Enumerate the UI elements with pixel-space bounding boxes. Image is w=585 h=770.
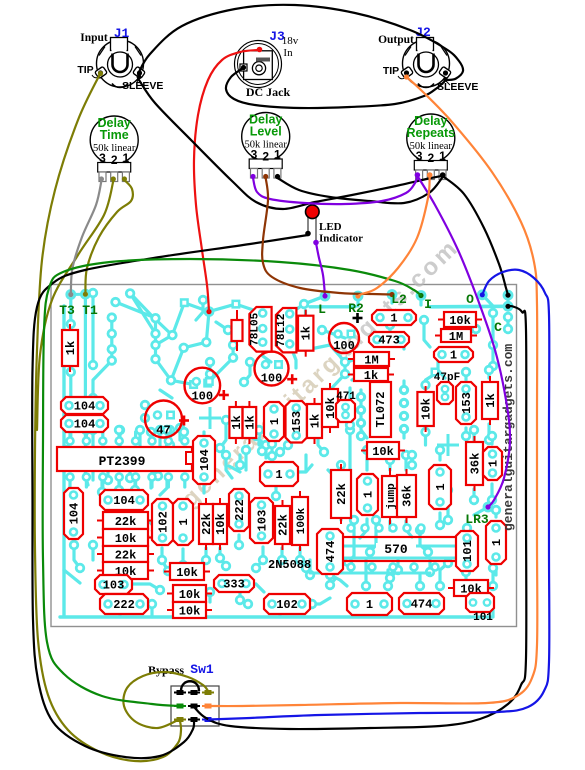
svg-text:3: 3	[99, 151, 106, 165]
svg-text:2: 2	[427, 151, 434, 165]
svg-text:3: 3	[251, 148, 258, 162]
watermark diagonal	[123, 236, 463, 565]
wire orange Repeats pin2 to pad R2	[358, 176, 430, 296]
diode D1	[232, 310, 243, 351]
svg-text:Repeats: Repeats	[406, 126, 455, 140]
wire olive switch loop	[123, 672, 208, 728]
wire black DC jack to J2 sleeve	[226, 68, 444, 108]
capacitor C34 (1)	[347, 593, 392, 615]
resistor R27 (36k)	[397, 469, 416, 523]
capacitor C3 (47 electrolytic)	[145, 401, 189, 438]
svg-text:DC Jack: DC Jack	[246, 85, 291, 99]
resistor R15 (22k)	[97, 512, 154, 529]
node C lower pad	[503, 301, 514, 312]
capacitor C5 (100 electrolytic)	[255, 352, 298, 386]
capacitor C18 (104)	[64, 488, 83, 539]
capacitor C19 (104)	[100, 490, 148, 510]
capacitor C14 (153)	[456, 382, 476, 424]
svg-text:222: 222	[233, 499, 247, 521]
switch Sw1 box	[171, 686, 219, 726]
resistor R9 (1k)	[307, 398, 323, 444]
regulator VR1 (78L05)	[249, 307, 271, 352]
resistor R29 (10k)	[448, 580, 494, 597]
svg-text:PT2399: PT2399	[99, 454, 146, 469]
svg-text:104: 104	[74, 400, 96, 414]
svg-text:10k: 10k	[214, 513, 228, 535]
resistor R28 (570)	[328, 537, 466, 561]
svg-text:In: In	[283, 47, 293, 59]
svg-text:1M: 1M	[364, 354, 378, 368]
svg-text:L2: L2	[391, 292, 407, 307]
svg-text:1: 1	[274, 148, 281, 162]
svg-text:1: 1	[366, 598, 373, 612]
capacitor C10 (1)	[264, 402, 284, 441]
wire black J1 sleeve to J2 sleeve	[138, 5, 463, 80]
svg-text:1k: 1k	[300, 326, 314, 340]
wire olive Time pin1 to T1	[85, 180, 132, 294]
resistor R14 (36k)	[466, 436, 483, 491]
svg-text:10k: 10k	[115, 532, 137, 546]
capacitor C9 (1)	[434, 347, 473, 363]
svg-text:1: 1	[177, 518, 191, 525]
svg-text:474: 474	[411, 598, 433, 612]
svg-text:222: 222	[113, 598, 135, 612]
svg-text:Time: Time	[100, 128, 129, 142]
jumper JP1	[382, 468, 398, 525]
capacitor C33 (474)	[399, 593, 444, 614]
node L pad	[320, 291, 331, 302]
capacitor C29 (1)	[429, 465, 451, 509]
resistor R19 (22k)	[199, 498, 214, 550]
capacitor C12 (471)	[336, 391, 356, 422]
svg-text:102: 102	[276, 598, 298, 612]
svg-text:1: 1	[434, 483, 448, 490]
svg-text:J1: J1	[114, 26, 130, 41]
svg-text:T1: T1	[82, 303, 98, 318]
square pads	[180, 298, 440, 389]
svg-text:10k: 10k	[372, 445, 394, 459]
resistor R26 (22k)	[331, 464, 351, 524]
svg-text:104: 104	[68, 503, 82, 525]
capacitor C8 (473)	[369, 332, 409, 348]
switch Sw1 jumper	[181, 681, 199, 691]
svg-text:TIP: TIP	[77, 64, 93, 76]
svg-text:1k: 1k	[364, 369, 378, 383]
capacitor C32 (1)	[486, 521, 506, 564]
alignment cross cyan 2	[437, 434, 459, 456]
capacitor C20 (102)	[152, 499, 173, 545]
capacitor C6 (100 electrolytic)	[329, 313, 363, 353]
jack J3 labels	[246, 29, 299, 99]
green node labels	[59, 292, 502, 527]
svg-text:101: 101	[473, 612, 493, 624]
resistor R24 (10k)	[167, 585, 212, 602]
capacitor C24 (103)	[95, 575, 132, 594]
svg-text:1: 1	[123, 151, 130, 165]
svg-text:102: 102	[157, 511, 171, 533]
resistor R18 (10k)	[97, 562, 154, 579]
wire black Repeats pin1 to pad C	[443, 176, 508, 295]
resistor R2 (1k)	[298, 310, 314, 357]
node LR3 pad	[483, 502, 494, 513]
svg-text:O: O	[466, 292, 474, 307]
svg-text:C: C	[494, 320, 502, 335]
svg-text:100: 100	[333, 339, 355, 353]
resistor R23 (10k)	[164, 563, 210, 580]
node L2 pad	[387, 289, 398, 300]
resistor R22 (100k)	[292, 491, 308, 551]
wire green switch to pad I	[43, 259, 421, 706]
capacitor C21 (1)	[173, 499, 193, 545]
svg-text:1k: 1k	[243, 415, 257, 429]
wire olive Time pin2 down	[37, 181, 113, 430]
jack J1 labels	[77, 26, 163, 92]
svg-text:22k: 22k	[277, 514, 291, 536]
capacitor C2 (104)	[61, 415, 108, 432]
transistor Q1 label 2N5088	[268, 558, 311, 572]
svg-text:104: 104	[74, 418, 96, 432]
node red wire end pad	[204, 306, 215, 317]
svg-text:78L05: 78L05	[249, 312, 261, 345]
svg-text:153: 153	[460, 392, 474, 414]
svg-text:1: 1	[268, 418, 282, 425]
wire red DC+ to PCB	[194, 50, 258, 312]
potentiometer VR-B (Delay Level)	[242, 113, 290, 179]
svg-text:Level: Level	[250, 125, 282, 139]
svg-text:100: 100	[261, 372, 283, 386]
svg-text:T3: T3	[59, 303, 75, 318]
capacitor C26 (333)	[214, 575, 254, 592]
potentiometer VR-C (Delay Repeats)	[406, 114, 455, 180]
svg-text:22k: 22k	[200, 513, 214, 535]
wire black LED to switch	[32, 235, 308, 758]
svg-text:10k: 10k	[176, 566, 198, 580]
svg-text:1k: 1k	[484, 393, 498, 407]
svg-text:1: 1	[362, 491, 376, 498]
capacitor C17 (1)	[260, 462, 298, 486]
wire gray Time pin3 to T3	[71, 181, 102, 294]
capacitor C15 (1)	[483, 447, 502, 480]
svg-text:103: 103	[256, 510, 270, 532]
svg-text:22k: 22k	[115, 549, 137, 563]
capacitor C23 (103)	[250, 498, 273, 543]
resistor R7 (1k)	[229, 401, 244, 444]
svg-text:104: 104	[198, 449, 212, 471]
svg-text:10k: 10k	[420, 398, 434, 420]
svg-text:474: 474	[324, 541, 338, 563]
PCB board outline	[51, 285, 517, 627]
IC U2 PT2399 pin pads	[65, 436, 189, 482]
wire black J1 sleeve to Repeats pin1	[139, 80, 443, 209]
svg-text:101: 101	[461, 540, 475, 562]
svg-text:1: 1	[450, 349, 457, 363]
node O pad	[477, 289, 488, 300]
wire purple Level pin3 to Repeats pin3	[253, 176, 417, 204]
resistor R25 (10k)	[167, 602, 212, 619]
svg-text:Sw1: Sw1	[190, 662, 214, 677]
via pads	[61, 288, 513, 609]
svg-text:1: 1	[490, 539, 504, 546]
op-amp U1 TL072	[370, 382, 391, 437]
resistor R16 (10k)	[97, 529, 154, 546]
capacitor C16 (104)	[193, 436, 215, 484]
wire orange J2 tip to switch	[209, 77, 537, 706]
svg-text:L: L	[318, 302, 326, 317]
capacitor C22 (222)	[229, 489, 249, 531]
resistor R12 (10k)	[417, 386, 433, 432]
svg-text:1k: 1k	[309, 414, 323, 428]
IC U1 TL072 pin pads	[356, 385, 408, 440]
R28 area pads/traces	[310, 523, 462, 573]
svg-text:Input: Input	[80, 32, 108, 44]
capacitor C11 (153)	[286, 401, 307, 443]
svg-text:1: 1	[275, 468, 282, 482]
regulator VR2 (78L12)	[276, 308, 297, 352]
resistor R1 (1k)	[62, 324, 78, 372]
wire purple Repeats pin3 to LR3	[417, 176, 510, 507]
resistor R10 (10k)	[322, 383, 338, 433]
svg-text:1: 1	[439, 149, 446, 163]
node T1 pad	[80, 289, 91, 300]
capacitor C35 (101)	[466, 593, 494, 624]
jack J3 (DC jack)	[235, 41, 282, 88]
capacitor C1 (104)	[61, 397, 108, 414]
resistor R8 (1k)	[243, 401, 258, 444]
svg-text:1: 1	[390, 312, 397, 326]
capacitor C31 (101)	[456, 531, 478, 571]
wire purple LED to pad L	[316, 243, 325, 296]
wire black Level pin1 to Repeats pin1 second	[278, 177, 443, 203]
resistor R17 (22k)	[97, 546, 154, 563]
node R2 pad	[353, 291, 364, 302]
resistor R6 (1k)	[348, 368, 394, 383]
node T3 pad	[65, 289, 76, 300]
svg-text:2N5088: 2N5088	[268, 558, 311, 572]
node C upper pad	[503, 290, 514, 301]
svg-text:1M: 1M	[449, 330, 463, 344]
capacitor C7 (1)	[372, 310, 416, 326]
svg-text:1: 1	[487, 460, 501, 467]
svg-text:1k: 1k	[64, 341, 78, 355]
svg-text:LED: LED	[319, 221, 342, 233]
jack J2 labels	[378, 25, 478, 93]
potentiometer VR-A (Delay Time)	[90, 116, 138, 182]
LED indicator	[305, 205, 319, 245]
switch Sw1 lugs	[174, 690, 214, 722]
wire black switch to pad C2	[194, 306, 526, 729]
svg-text:10k: 10k	[449, 314, 471, 328]
svg-text:333: 333	[223, 578, 245, 592]
svg-text:Indicator: Indicator	[319, 233, 363, 245]
svg-text:TL072: TL072	[374, 391, 388, 427]
PCB traces	[60, 293, 508, 617]
LED labels	[319, 221, 363, 245]
wire brown Level pin2 to pad L2	[262, 178, 392, 295]
jack J1 (input)	[95, 38, 146, 88]
svg-text:36k: 36k	[469, 453, 483, 475]
svg-text:10k: 10k	[179, 605, 201, 619]
node I pad	[416, 290, 427, 301]
svg-text:570: 570	[384, 542, 408, 557]
capacitor C28 (1)	[357, 474, 378, 515]
svg-text:2: 2	[262, 150, 269, 164]
watermark vertical	[501, 344, 516, 531]
svg-text:103: 103	[103, 579, 125, 593]
alignment cross cyan 1	[199, 407, 221, 429]
svg-text:78L12: 78L12	[276, 314, 288, 347]
wire blue pad O to switch	[209, 270, 549, 720]
jack J2 (output)	[401, 38, 452, 88]
svg-text:36k: 36k	[401, 485, 415, 507]
svg-text:47: 47	[156, 424, 170, 438]
svg-text:22k: 22k	[335, 483, 349, 505]
resistor R3 (10k)	[438, 312, 482, 328]
switch labels	[148, 662, 214, 677]
IC U2 PT2399	[57, 447, 196, 471]
wire olive J1 tip to switch	[35, 73, 181, 761]
capacitor C30 (474)	[317, 529, 343, 574]
capacitor C25 (222)	[100, 594, 148, 614]
resistor R4 (1M)	[435, 329, 477, 344]
capacitor C4 (100 electrolytic)	[185, 368, 229, 404]
pot terminal dots	[99, 172, 446, 181]
svg-text:Output: Output	[378, 34, 414, 46]
svg-text:2: 2	[111, 153, 118, 167]
svg-text:100: 100	[191, 389, 213, 403]
capacitor C13 (47pF)	[434, 372, 460, 404]
svg-text:TIP: TIP	[383, 65, 399, 77]
resistor R20 (10k)	[213, 498, 228, 550]
svg-text:104: 104	[113, 494, 135, 508]
resistor R21 (22k)	[275, 500, 291, 550]
svg-text:153: 153	[290, 411, 304, 433]
svg-text:18v: 18v	[282, 35, 299, 47]
resistor R5 (1M)	[348, 352, 395, 368]
svg-text:generalguitargadgets.com: generalguitargadgets.com	[501, 344, 516, 531]
svg-text:3: 3	[416, 149, 423, 163]
resistor R13 (1k)	[482, 376, 498, 425]
svg-text:473: 473	[378, 334, 400, 348]
svg-text:LR3: LR3	[465, 512, 489, 527]
jack terminal dots	[98, 47, 448, 82]
svg-text:I: I	[424, 297, 432, 312]
svg-text:10k: 10k	[179, 588, 201, 602]
svg-text:R2: R2	[348, 301, 364, 316]
capacitor C27 (102)	[264, 594, 310, 614]
resistor R11 (10k)	[361, 442, 405, 459]
svg-text:22k: 22k	[115, 515, 137, 529]
svg-text:100k: 100k	[296, 507, 308, 534]
